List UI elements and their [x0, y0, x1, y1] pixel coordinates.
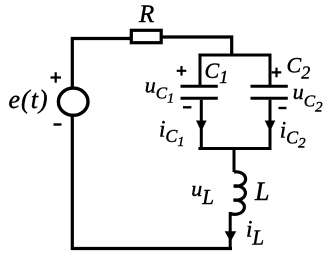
capacitor C2 bottom plate: [251, 97, 288, 100]
svg-text:iL: iL: [246, 217, 264, 250]
wire: capacitor bottom rail: [198, 147, 271, 150]
wire: capacitor top rail: [198, 54, 271, 57]
wire: top rail right segment and drop to capacitor rail: [161, 37, 232, 57]
wire: C2 top stub: [269, 54, 272, 86]
svg-text:L: L: [254, 177, 269, 206]
wire: C2 bottom stub: [269, 100, 272, 147]
svg-text:C1: C1: [205, 58, 229, 87]
wire: left side below source: [71, 117, 74, 251]
svg-text:iC1: iC1: [159, 116, 184, 150]
arrow iL: [225, 231, 237, 242]
svg-text:e(t): e(t): [9, 85, 49, 114]
svg-text:uC2: uC2: [293, 79, 323, 116]
voltage source e(t) circle: [58, 88, 88, 115]
wire: C1 top stub: [199, 54, 202, 86]
minus sign C2: [279, 107, 287, 109]
capacitor C2 top plate: [251, 85, 288, 88]
capacitor C1 bottom plate: [181, 97, 218, 100]
wire: C1 bottom stub: [200, 100, 203, 147]
minus sign C1: [183, 106, 191, 108]
arrow iC1: [196, 121, 207, 132]
plus sign source: [51, 72, 62, 83]
inductor L coil: [230, 172, 245, 215]
capacitor C1 top plate: [181, 85, 218, 88]
wire: bottom rail: [72, 247, 232, 250]
svg-text:iC2: iC2: [280, 118, 306, 152]
svg-text:uC1: uC1: [145, 72, 174, 106]
svg-text:C2: C2: [287, 53, 311, 83]
resistor R box: [131, 30, 161, 42]
svg-text:uL: uL: [191, 176, 214, 209]
wire: center drop to inductor: [233, 147, 236, 172]
wire: below inductor to bottom rail: [229, 212, 232, 249]
minus sign source: [54, 123, 62, 125]
wire: top-left corner and top rail left segment: [72, 39, 131, 88]
arrow iC2: [265, 121, 276, 132]
svg-text:R: R: [138, 1, 154, 28]
plus sign C2: [272, 68, 282, 78]
plus sign C1: [177, 66, 187, 76]
